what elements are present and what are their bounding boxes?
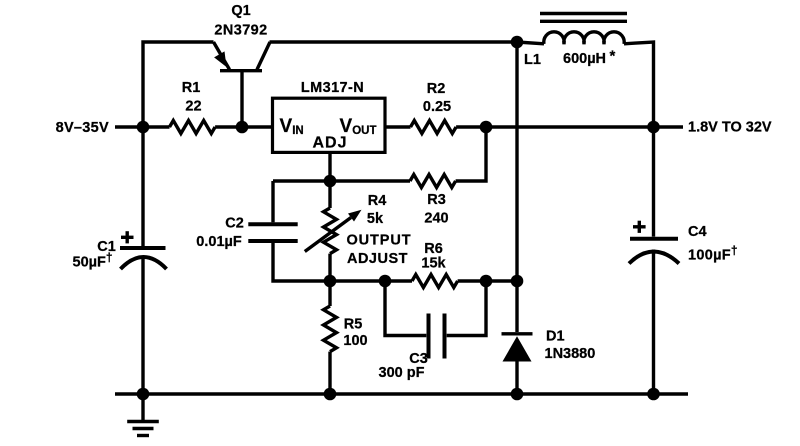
label C1 plus (121, 231, 134, 243)
node R4-R5-C2 junction (324, 275, 337, 288)
op-amp U1 LM317-N box (273, 98, 386, 152)
svg-text:1N3880: 1N3880 (545, 346, 596, 362)
svg-text:2N3792: 2N3792 (214, 23, 267, 39)
wire: C1 to ground rail (141, 258, 144, 394)
svg-text:ADJUST: ADJUST (347, 251, 408, 267)
wire: left rail up and top rail to Q1 emitter (143, 42, 214, 127)
node Q1 base junction (236, 121, 249, 134)
inductor L1 (544, 32, 624, 44)
wire: ADJ lead (328, 152, 331, 181)
resistor R2 (411, 121, 457, 134)
label C4 plus (633, 221, 646, 233)
wire: left rail down to C1 (141, 127, 144, 246)
wire: coil to right rail and down to output node (624, 42, 654, 127)
svg-text:1.8V TO 32V: 1.8V TO 32V (688, 120, 772, 136)
potentiometer R4 (305, 181, 362, 281)
svg-text:L1: L1 (524, 52, 541, 68)
svg-text:R4: R4 (368, 193, 387, 209)
node D1 anode junction (511, 388, 524, 401)
svg-text:300 pF: 300 pF (379, 365, 425, 381)
diode D1 (502, 334, 533, 394)
wire: top rail from Q1 collector to L1 (270, 40, 518, 43)
capacitor C4 (629, 239, 679, 394)
node R5 bottom junction (324, 388, 337, 401)
svg-text:C4: C4 (688, 224, 707, 240)
resistor R1 (143, 121, 273, 134)
core of L1 (540, 14, 627, 22)
capacitor C3 (385, 281, 486, 359)
svg-text:R1: R1 (182, 80, 201, 96)
svg-text:OUTPUT: OUTPUT (346, 233, 411, 249)
svg-text:ADJ: ADJ (312, 135, 347, 152)
wire: VOUT lead to R2 (385, 125, 411, 128)
wire: output row from R2 to output terminal (456, 125, 683, 128)
wire: R6 to switch line (458, 279, 517, 282)
node ground junction (137, 388, 150, 401)
node output junction (647, 121, 660, 134)
capacitor C2 (248, 181, 330, 281)
wire: input lead (115, 125, 143, 128)
svg-text:R3: R3 (427, 192, 446, 208)
svg-text:LM317-N: LM317-N (301, 80, 364, 96)
svg-text:240: 240 (424, 211, 448, 227)
svg-text:22: 22 (185, 99, 201, 115)
wire: R3 row left segment (273, 179, 410, 182)
svg-text:R5: R5 (344, 317, 363, 333)
node ADJ junction (324, 175, 337, 188)
svg-text:C2: C2 (225, 216, 244, 232)
wire: switch node vertical line (515, 42, 518, 332)
ground (127, 394, 159, 436)
resistor R5 (324, 281, 337, 394)
svg-text:R2: R2 (427, 81, 446, 97)
resistor R6 (412, 275, 458, 288)
node R6-C3 right junction (480, 275, 493, 288)
resistor R3 (410, 175, 456, 188)
wire: R3 to R2 junction (456, 127, 486, 181)
wire: right rail output to C4 (652, 127, 655, 237)
svg-text:0.25: 0.25 (423, 99, 451, 115)
svg-text:Q1: Q1 (231, 3, 250, 19)
wire: bottom ground rail (115, 392, 688, 395)
node switch-R6 junction (511, 275, 524, 288)
svg-text:D1: D1 (546, 329, 565, 345)
svg-text:8V–35V: 8V–35V (56, 120, 109, 136)
node R2-R3 junction (480, 121, 493, 134)
node switch node top (511, 36, 524, 49)
node C4 bottom junction (647, 388, 660, 401)
svg-text:0.01µF: 0.01µF (196, 234, 242, 250)
node C3 left junction (379, 275, 392, 288)
svg-text:100: 100 (343, 333, 367, 349)
transistor Q1 (214, 42, 271, 127)
svg-text:5k: 5k (367, 211, 384, 227)
wire: switch node to coil (517, 42, 544, 44)
node input junction (137, 121, 150, 134)
wire: R6 row left segment (330, 279, 412, 282)
capacitor C1 (120, 248, 167, 269)
svg-text:15k: 15k (421, 256, 446, 272)
